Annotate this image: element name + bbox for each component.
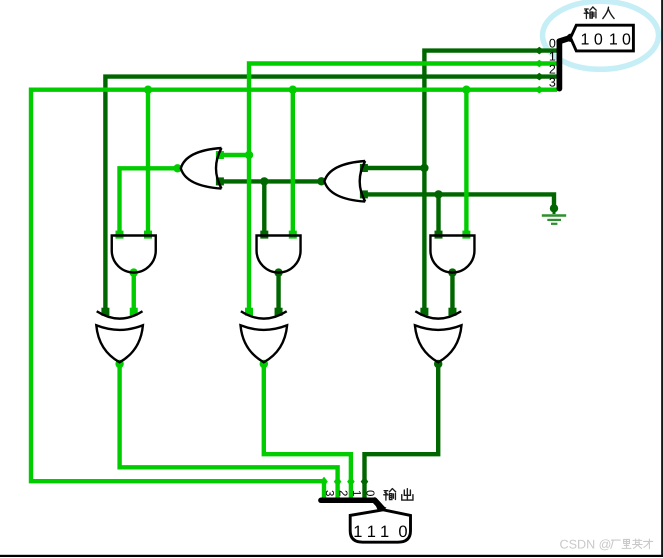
- junction on OR1-OR2 row at vertical x264: [260, 177, 268, 185]
- wire net bit0 low: splitter line 0 left then down to XOR3 left input, branch to OR2 top input: [364, 51, 557, 313]
- output pin label "chu" glyph: [402, 489, 413, 500]
- junction on ground row at vertical x438: [434, 190, 442, 198]
- screenshot border right: [661, 0, 663, 557]
- AND3 output dot: [448, 268, 456, 276]
- junction on L3 at x148: [144, 86, 152, 94]
- watermark "chang" glyph: [611, 540, 620, 548]
- wire high: XOR2 output down, right to output splitter stub 1: [264, 362, 351, 500]
- input splitter pin connection dot: [567, 34, 575, 42]
- output splitter arrowhead at pin: [376, 505, 387, 515]
- svg-text:1: 1: [380, 523, 389, 541]
- splitter diamonds on input lines: [534, 47, 544, 94]
- output pin body: [350, 510, 410, 542]
- wire low: AND3 output down to XOR3 right input: [450, 272, 454, 314]
- junction on L1 vertical at OR1 top input row: [245, 151, 253, 159]
- svg-text:1: 1: [353, 523, 362, 541]
- svg-text:0: 0: [549, 36, 556, 50]
- output pin label "shu" glyph: [384, 489, 396, 501]
- AND2 output dot: [274, 268, 282, 276]
- input pin label "shu" glyph: [584, 7, 596, 19]
- svg-text:0: 0: [364, 490, 376, 496]
- AND1 output dot: [130, 268, 138, 276]
- svg-text:0: 0: [622, 31, 631, 48]
- or-gate U1 (left, output west): [181, 148, 222, 189]
- output splitter diamonds: [320, 477, 368, 487]
- wire low: ground net to OR2 bottom input, branch down to AND3 left input: [364, 194, 554, 237]
- junction dots bright: [115, 86, 470, 369]
- watermark "cai" glyph: [644, 539, 653, 549]
- output splitter bar: [321, 498, 375, 504]
- XOR3 output dot: [434, 360, 442, 368]
- output pin value 1110: [353, 523, 407, 541]
- XOR1 output dot: [115, 360, 123, 368]
- svg-text:0: 0: [594, 31, 603, 48]
- ground port dot: [550, 204, 558, 212]
- or-gate U2 (right, output west): [324, 161, 365, 202]
- xor-gate X3 (output south): [415, 311, 462, 362]
- screenshot border bottom: [0, 555, 663, 557]
- junction on L3 at x466: [462, 86, 470, 94]
- wire low: XOR3 output down, left, down to output splitter stub 0: [365, 362, 439, 500]
- svg-text:CSDN @: CSDN @: [560, 538, 612, 552]
- svg-text:1: 1: [367, 523, 376, 541]
- watermark "li" glyph: [622, 539, 631, 548]
- wire high: AND1 output down to XOR1 right input: [132, 272, 136, 314]
- input splitter diagonal to pin: [559, 38, 570, 42]
- junction on L0 at vertical x424: [420, 164, 428, 172]
- input pin label "ru" glyph: [603, 7, 614, 18]
- and-gate A2 (output south): [257, 236, 301, 273]
- and-gate A3 (output south): [430, 236, 474, 273]
- output splitter bit labels 3210 rotated: [323, 490, 376, 496]
- svg-text:1: 1: [581, 31, 590, 48]
- output splitter diagonal to pin: [375, 500, 383, 509]
- port caps bright: [116, 151, 471, 316]
- OR2 output dot: [317, 177, 325, 185]
- wire net bit1 high: splitter line 1 left then down to XOR2 left input, branch to OR1 top input: [220, 64, 557, 314]
- and-gate A1 (output south): [112, 236, 156, 273]
- input splitter bit labels 0-3: [549, 36, 556, 89]
- OR1 output dot: [173, 164, 181, 172]
- svg-text:1: 1: [549, 49, 556, 63]
- wire low: AND2 output down to XOR2 right input: [276, 272, 280, 314]
- xor-gate X1 (output south): [96, 311, 143, 362]
- svg-text:1: 1: [350, 490, 362, 496]
- input pin value 1010: [581, 31, 632, 48]
- junction dots dark: [260, 164, 558, 368]
- xor-gate X2 (output south): [241, 311, 288, 362]
- wire high: XOR1 output down, right to output splitter stub 2: [120, 362, 338, 500]
- ground symbol: [542, 206, 566, 224]
- svg-text:0: 0: [398, 523, 407, 541]
- svg-text:2: 2: [337, 490, 349, 496]
- input splitter bar: [557, 41, 563, 88]
- watermark "ying" glyph: [633, 539, 643, 548]
- port caps dark: [101, 164, 456, 316]
- svg-text:3: 3: [323, 490, 335, 496]
- wire low: OR2 output to OR1 bottom input, branch down to AND2 left input: [220, 181, 322, 237]
- svg-text:1: 1: [609, 31, 618, 48]
- XOR2 output dot: [260, 360, 268, 368]
- junction on L3 at x292: [289, 86, 297, 94]
- wire net bit2 low: splitter line 2 left then down to XOR1 left input: [105, 77, 557, 313]
- svg-text:3: 3: [549, 76, 556, 90]
- input pin body: [571, 25, 634, 51]
- svg-text:2: 2: [549, 63, 556, 77]
- wire high: OR1 output left then down to AND1 left input: [120, 168, 178, 237]
- selection halo around input pin: [543, 1, 659, 69]
- wire net bit3 high: splitter line 3 left, down, right to output splitter stub 3; branches down to AND1, AND2, AND3 right inputs: [31, 90, 557, 500]
